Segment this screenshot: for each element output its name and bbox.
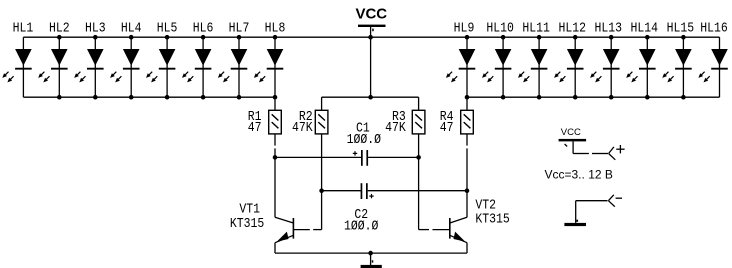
junction bottom-left rail at HL8 — [273, 95, 278, 100]
svg-text:Vcc=3.. 12 B: Vcc=3.. 12 B — [545, 168, 613, 182]
svg-text:VT2: VT2 — [475, 198, 496, 213]
resistor R1 — [269, 110, 282, 134]
junction bottom-right rail at HL13 — [609, 95, 614, 100]
svg-text:HL8: HL8 — [265, 21, 286, 36]
svg-text:47: 47 — [248, 120, 262, 135]
wire top VCC rail — [23, 36, 719, 38]
junction top rail at HL14 — [645, 35, 650, 40]
junction R2 / C2 / VT1 base — [319, 188, 324, 193]
svg-text:1ØØ.Ø: 1ØØ.Ø — [347, 132, 382, 147]
LED HL6 — [182, 37, 211, 97]
transistor VT2 — [419, 217, 467, 253]
svg-text:HL3: HL3 — [85, 21, 106, 36]
LED HL13 — [590, 37, 619, 97]
svg-text:KT315: KT315 — [475, 212, 509, 227]
LED HL2 — [38, 37, 67, 97]
wire R4 bottom to VT2 collector node (with gap) — [466, 134, 468, 217]
junction top rail at HL13 — [609, 35, 614, 40]
svg-text:47K: 47K — [385, 120, 406, 135]
svg-text:HL14: HL14 — [631, 21, 659, 36]
power symbol VCC — [358, 25, 386, 38]
svg-text:HL16: HL16 — [700, 21, 728, 36]
LED HL4 — [110, 37, 139, 97]
junction bottom-right rail at HL12 — [573, 95, 578, 100]
svg-text:VCC: VCC — [355, 6, 387, 23]
junction top rail at HL11 — [537, 35, 542, 40]
svg-text:47K: 47K — [292, 120, 313, 135]
svg-text:HL2: HL2 — [49, 21, 70, 36]
junction top rail at HL12 — [573, 35, 578, 40]
LED HL9 — [446, 37, 475, 97]
power symbol VCC (legend) — [559, 139, 587, 154]
svg-text:VT1: VT1 — [239, 202, 260, 217]
junction ground tap — [368, 251, 373, 256]
junction top rail at HL5 — [165, 35, 170, 40]
junction bottom-right rail at HL10 — [501, 95, 506, 100]
LED HL14 — [626, 37, 655, 97]
wire HL8 rail end down to R1 — [274, 97, 276, 110]
LED HL7 — [218, 37, 247, 97]
junction top rail at HL4 — [129, 35, 134, 40]
svg-text:1ØØ.Ø: 1ØØ.Ø — [344, 219, 379, 234]
junction bottom-left rail at HL5 — [165, 95, 170, 100]
svg-text:VCC: VCC — [561, 127, 581, 138]
connector pin minus — [608, 195, 622, 207]
wire R1 bottom to VT1 collector node (with gap) — [274, 134, 276, 217]
wire minus connector to legend ground — [576, 201, 608, 223]
svg-text:HL6: HL6 — [193, 21, 214, 36]
wire bottom rail of right LED bank — [467, 96, 720, 98]
connector pin plus — [609, 145, 625, 160]
junction bottom-right rail at HL11 — [537, 95, 542, 100]
junction top rail at HL9 — [465, 35, 470, 40]
junction bottom-left rail at HL6 — [201, 95, 206, 100]
wire HL9 rail down to R4 — [466, 97, 468, 110]
svg-text:47: 47 — [440, 120, 454, 135]
LED HL10 — [482, 37, 511, 97]
svg-text:HL7: HL7 — [229, 21, 250, 36]
svg-text:HL13: HL13 — [594, 21, 622, 36]
ground symbol — [361, 253, 382, 268]
junction bottom-left rail at HL3 — [93, 95, 98, 100]
svg-text:HL10: HL10 — [486, 21, 514, 36]
junction top rail at HL3 — [93, 35, 98, 40]
svg-text:HL1: HL1 — [13, 21, 34, 36]
junction bottom-left rail at HL7 — [237, 95, 242, 100]
LED HL11 — [518, 37, 547, 97]
LED HL8 — [254, 37, 283, 97]
LED HL1 — [2, 37, 31, 97]
svg-text:HL15: HL15 — [667, 21, 695, 36]
junction top rail at HL8 — [273, 35, 278, 40]
resistor R3 — [412, 110, 425, 134]
LED HL15 — [662, 37, 691, 97]
LED HL16 — [698, 37, 727, 97]
junction bottom-left rail at HL2 — [57, 95, 62, 100]
junction top rail at HL6 — [201, 35, 206, 40]
junction bottom-left rail at HL4 — [129, 95, 134, 100]
transistor VT1 — [275, 217, 322, 253]
svg-text:HL11: HL11 — [522, 21, 550, 36]
junction bottom-right rail at HL14 — [645, 95, 650, 100]
wire R2 bottom through C2 node to VT1 base — [321, 134, 323, 230]
junction bottom-right rail at HL9 — [465, 95, 470, 100]
svg-text:HL4: HL4 — [121, 21, 142, 36]
resistor R4 — [461, 110, 474, 134]
LED HL3 — [74, 37, 103, 97]
junction top rail at HL7 — [237, 35, 242, 40]
svg-text:KT315: KT315 — [230, 216, 264, 231]
svg-text:HL12: HL12 — [558, 21, 586, 36]
junction top rail at HL15 — [681, 35, 686, 40]
junction top rail at HL2 — [57, 35, 62, 40]
wire bottom emitter rail — [275, 252, 467, 254]
junction top rail at VCC — [368, 35, 373, 40]
junction top rail at HL10 — [501, 35, 506, 40]
svg-text:HL5: HL5 — [157, 21, 178, 36]
svg-text:HL9: HL9 — [454, 21, 475, 36]
wire header to R2 and R3 tops — [322, 97, 419, 110]
ground symbol (legend) — [564, 220, 586, 226]
junction R3 / C1 / VT2 base — [416, 155, 421, 160]
wire R3 bottom through C1 node to VT2 base — [418, 134, 420, 230]
capacitor C2 — [322, 183, 467, 199]
wire legend VCC to plus connector — [573, 153, 608, 155]
LED HL5 — [146, 37, 175, 97]
junction R1 / C1 / VT1 collector — [273, 155, 278, 160]
LED HL12 — [554, 37, 583, 97]
wire bottom rail of left LED bank — [23, 96, 275, 98]
capacitor C1 — [275, 150, 419, 166]
resistor R2 — [315, 110, 328, 134]
junction VCC header — [368, 95, 373, 100]
junction bottom-right rail at HL15 — [681, 95, 686, 100]
junction R4 / C2 / VT2 collector — [465, 188, 470, 193]
wire VCC column down to R2/R3 header — [370, 37, 372, 97]
